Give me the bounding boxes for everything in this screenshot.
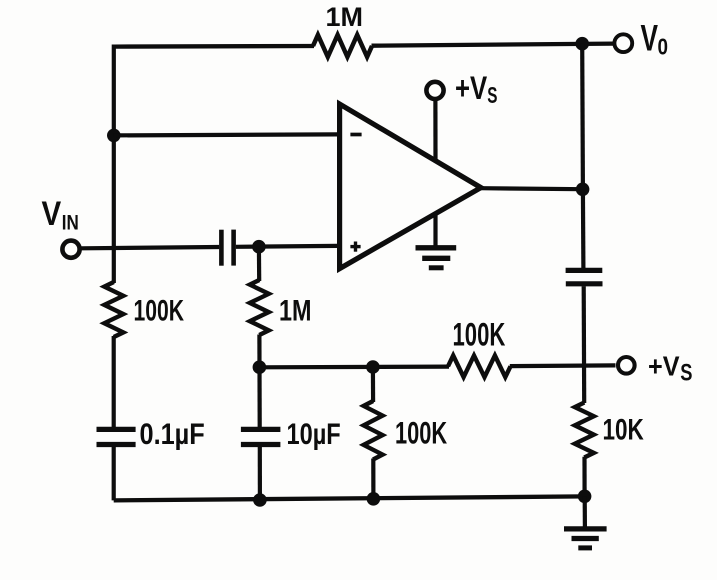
resistor R2 100K (input shunt) bbox=[104, 282, 123, 337]
svg-text:1M: 1M bbox=[326, 2, 364, 32]
node label V0 bbox=[641, 18, 669, 60]
svg-text:10K: 10K bbox=[603, 413, 645, 446]
wire op-amp output bbox=[481, 188, 583, 189]
svg-text:1M: 1M bbox=[279, 294, 312, 327]
wire cap to +VS node bbox=[582, 286, 587, 403]
terminal V0 bbox=[614, 34, 632, 52]
node label VIN bbox=[42, 195, 79, 234]
svg-text:100K: 100K bbox=[134, 294, 185, 327]
wire 10K to ground node bbox=[582, 457, 586, 497]
ground (main, bottom right) bbox=[564, 529, 607, 548]
svg-text:V: V bbox=[42, 195, 62, 233]
svg-text:100K: 100K bbox=[453, 316, 506, 352]
wire left rail lower bbox=[112, 447, 116, 501]
wire 1M to 10uF bbox=[257, 335, 262, 428]
svg-text:S: S bbox=[487, 82, 497, 108]
wire bias row right bbox=[510, 363, 616, 368]
svg-text:+V: +V bbox=[648, 351, 680, 382]
capacitor C2 10uF bbox=[241, 429, 281, 444]
svg-text:V: V bbox=[641, 18, 659, 59]
svg-text:IN: IN bbox=[62, 210, 79, 234]
wire node B to 1M bbox=[257, 247, 262, 281]
resistor R1 1M feedback bbox=[313, 35, 372, 57]
svg-text:S: S bbox=[680, 359, 692, 386]
wire op-amp ground lead bbox=[433, 216, 437, 247]
junction top-right node bbox=[575, 37, 589, 51]
svg-text:0: 0 bbox=[658, 34, 669, 60]
resistor R3 1M (bias to + input) bbox=[250, 280, 269, 335]
wire VIN to coupling cap bbox=[81, 247, 219, 248]
ground (op-amp) bbox=[416, 248, 457, 268]
junction bottom node C bbox=[367, 492, 381, 506]
svg-text:0.1µF: 0.1µF bbox=[140, 418, 205, 451]
wire left rail upper bbox=[112, 45, 116, 284]
wire 100K divider to bottom rail bbox=[371, 459, 375, 499]
wire top rail right segment bbox=[372, 44, 614, 46]
svg-text:+V: +V bbox=[455, 70, 488, 106]
resistor R6 10K bbox=[575, 403, 594, 458]
junction bottom node B bbox=[253, 493, 267, 507]
op-amp U1 bbox=[340, 104, 481, 269]
wire right rail upper (V0 to output node) bbox=[580, 44, 585, 190]
wire right rail (output node to cap) bbox=[581, 189, 586, 268]
junction node B (cap/1M) bbox=[252, 240, 266, 254]
wire 10uF to bottom rail bbox=[258, 447, 262, 500]
svg-text:100K: 100K bbox=[395, 414, 447, 450]
junction inverting-input node bbox=[107, 129, 121, 143]
net label +VS (right) bbox=[648, 351, 693, 387]
net label +VS (top) bbox=[455, 70, 498, 108]
capacitor C3 coupling (input) bbox=[221, 230, 233, 266]
wire top rail left segment bbox=[114, 44, 314, 49]
wire left rail mid bbox=[112, 336, 116, 427]
junction bottom-right ground node bbox=[578, 490, 592, 504]
wire inverting input bbox=[114, 134, 338, 135]
wire bias row left bbox=[259, 365, 449, 370]
terminal +VS (supply, top) bbox=[426, 82, 443, 99]
junction node C (1M bottom) bbox=[253, 360, 267, 374]
capacitor C4 (output, unlabeled) bbox=[566, 270, 603, 283]
wire +VS supply lead bbox=[433, 101, 437, 161]
resistor R4 100K (divider lower) bbox=[364, 401, 383, 460]
resistor R5 100K (bias feed) bbox=[448, 356, 511, 378]
wire ground lead (bottom right) bbox=[583, 496, 587, 527]
wire node D to 100K divider bbox=[371, 367, 375, 402]
svg-text:10µF: 10µF bbox=[287, 418, 341, 451]
wire coupling cap to non-inverting input bbox=[236, 244, 338, 249]
terminal VIN bbox=[62, 241, 79, 258]
terminal +VS (bias, right) bbox=[618, 357, 635, 374]
junction output node bbox=[576, 183, 590, 197]
capacitor C1 0.1uF bbox=[97, 429, 136, 444]
wire bottom rail bbox=[114, 496, 585, 500]
junction node D (100K divider top) bbox=[366, 360, 380, 374]
